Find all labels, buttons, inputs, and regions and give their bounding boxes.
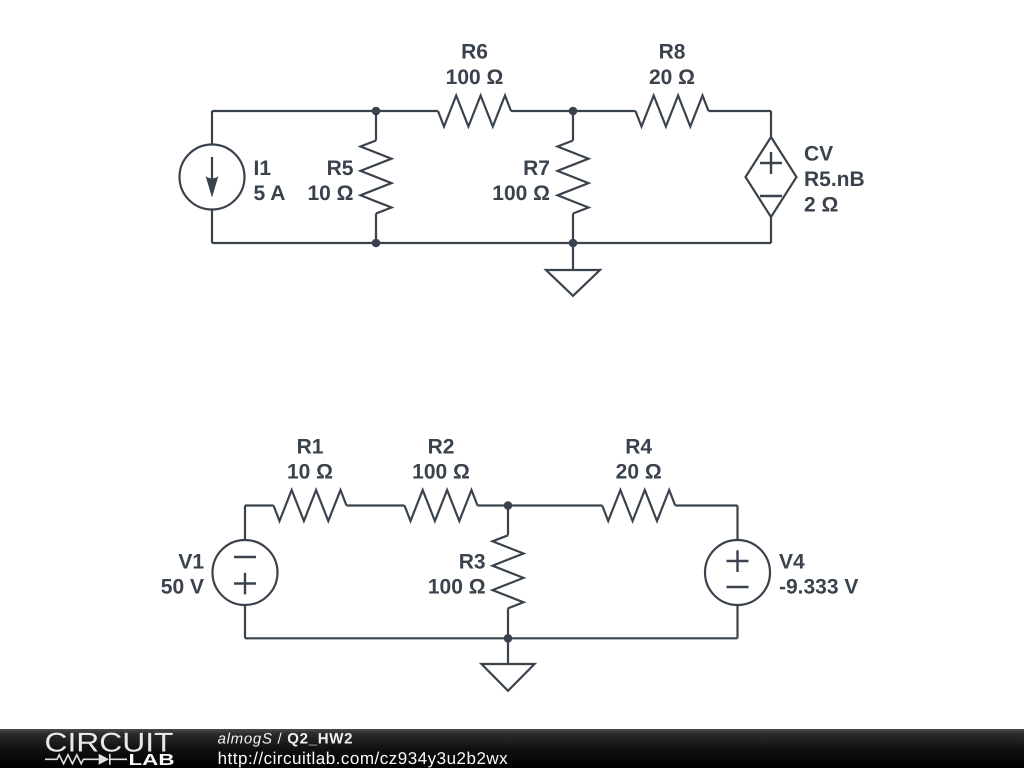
voltage source V1 — [213, 540, 278, 605]
svg-text:10 Ω: 10 Ω — [287, 460, 333, 483]
svg-text:100 Ω: 100 Ω — [412, 460, 470, 483]
svg-text:R3: R3 — [459, 551, 486, 574]
svg-text:R6: R6 — [461, 41, 488, 64]
node dots bottom — [504, 501, 513, 642]
svg-text:50 V: 50 V — [161, 576, 204, 599]
svg-text:20 Ω: 20 Ω — [616, 460, 662, 483]
node dots top — [372, 107, 578, 248]
svg-text:2 Ω: 2 Ω — [804, 194, 838, 217]
svg-text:http://circuitlab.com/cz934y3u: http://circuitlab.com/cz934y3u2b2wx — [218, 749, 509, 768]
wire bottom rail — [212, 242, 771, 244]
wire V1 branch — [244, 506, 246, 639]
wire CV branch — [770, 111, 772, 243]
ground bottom — [482, 638, 535, 691]
svg-text:CV: CV — [804, 143, 833, 166]
wire top rail — [212, 110, 771, 112]
resistor R1 — [274, 490, 347, 521]
svg-text:100 Ω: 100 Ω — [446, 66, 504, 89]
resistor R4 — [602, 490, 675, 521]
svg-text:R5: R5 — [327, 157, 354, 180]
resistor R2 — [405, 490, 478, 521]
svg-text:R5.nB: R5.nB — [804, 168, 865, 191]
svg-text:100 Ω: 100 Ω — [428, 575, 486, 598]
resistor R7 — [558, 111, 589, 243]
svg-text:R7: R7 — [523, 157, 550, 180]
resistor R3 — [493, 506, 524, 639]
wire V4 branch — [736, 506, 738, 639]
svg-text:R4: R4 — [625, 435, 652, 458]
svg-text:almogS / Q2_HW2: almogS / Q2_HW2 — [218, 731, 354, 748]
wire top rail bottom circuit — [245, 504, 738, 506]
svg-text:R1: R1 — [297, 435, 324, 458]
svg-text:V1: V1 — [178, 551, 204, 574]
resistor R8 — [636, 96, 709, 127]
resistor R5 — [361, 111, 392, 243]
resistor R6 — [438, 96, 511, 127]
wire I1 branch — [211, 111, 213, 243]
svg-text:10 Ω: 10 Ω — [307, 182, 353, 205]
ground top — [546, 243, 600, 296]
current source I1 — [180, 145, 245, 210]
svg-text:5 A: 5 A — [254, 182, 286, 205]
svg-text:R2: R2 — [428, 435, 455, 458]
voltage source V4 — [705, 540, 770, 605]
svg-text:20 Ω: 20 Ω — [649, 66, 695, 89]
svg-text:I1: I1 — [254, 157, 272, 180]
wire bottom rail bottom circuit — [245, 637, 738, 639]
svg-text:-9.333 V: -9.333 V — [779, 576, 858, 599]
dependent source CV — [746, 137, 797, 217]
svg-text:R8: R8 — [659, 41, 686, 64]
svg-text:LAB: LAB — [129, 752, 175, 768]
footer bar — [0, 729, 1024, 768]
svg-text:100 Ω: 100 Ω — [492, 182, 550, 205]
logo squiggle — [45, 754, 127, 765]
svg-text:V4: V4 — [779, 551, 805, 574]
